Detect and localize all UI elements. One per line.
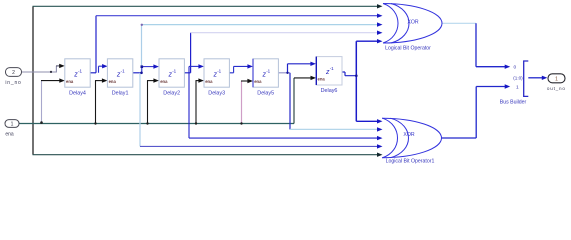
wire: Delay2 tap down + jog <box>188 66 190 138</box>
wire: top XOR output to Bus input 0 <box>442 22 477 24</box>
delay block Delay6 <box>316 57 342 94</box>
svg-text:Delay1: Delay1 <box>112 91 129 97</box>
wire: top rail 1 (in_no to top XOR input1) <box>33 5 379 7</box>
wire: bottom rail 1 <box>356 120 378 122</box>
wire: Delay1 to Delay2 input (jog) <box>142 67 155 73</box>
svg-text:Logical Bit Operator: Logical Bit Operator <box>385 45 431 51</box>
wire: Delay2 to Delay3 input <box>189 65 200 67</box>
svg-text:-1: -1 <box>78 68 82 73</box>
svg-text:Delay3: Delay3 <box>208 91 225 97</box>
delay block Delay4 <box>65 59 90 97</box>
svg-text:1: 1 <box>11 122 14 128</box>
corner blob rail3 <box>141 24 143 26</box>
wire: Delay1 output run <box>133 72 142 74</box>
svg-text:(1:0): (1:0) <box>513 76 523 81</box>
wire: Delay1 tap up to rail3 (light) <box>141 25 143 73</box>
wire: bottom rail 5 (in_no to bottom XOR input5) <box>33 154 379 156</box>
wire: ena branch to Delay5 (pink vertical) <box>241 81 243 124</box>
svg-text:1: 1 <box>516 84 519 90</box>
delay block Delay1 <box>107 59 132 97</box>
wire: Delay5 jog up to Delay6 input <box>288 64 312 73</box>
wire: in_no from port2 to Delay4 <box>22 71 57 73</box>
wire: bottom rail 3 <box>189 137 378 139</box>
junction dot ena/Delay1 <box>94 122 96 124</box>
wire: top rail 2 <box>96 15 378 17</box>
svg-text:XOR: XOR <box>407 19 418 25</box>
svg-text:Delay6: Delay6 <box>321 88 338 94</box>
wire: ena rail from port1 <box>19 123 294 125</box>
wire: Delay5 output run (light) <box>278 72 290 74</box>
svg-text:ena: ena <box>160 79 168 84</box>
svg-text:-1: -1 <box>121 68 125 73</box>
junction dot ena/Delay2 <box>146 122 148 124</box>
junction speck on in wire <box>50 71 52 73</box>
delay block Delay2 <box>159 59 184 97</box>
wire: ena branch to Delay1 <box>95 81 97 124</box>
wire: Delay2 tap up to rail4 <box>190 33 192 73</box>
wire: Delay6 output <box>342 72 356 76</box>
bus builder bracket <box>500 61 529 106</box>
wire: Bus output to out_no port <box>528 77 542 79</box>
svg-text:Logical Bit Operator1: Logical Bit Operator1 <box>386 159 435 165</box>
svg-text:2: 2 <box>12 70 15 76</box>
wire: Delay2 output run <box>184 72 190 74</box>
wire: top rail 4 (very light) <box>191 32 378 34</box>
wire: ena branch to Delay2 <box>147 81 149 124</box>
wire: top rail 5 <box>356 40 378 42</box>
junction dot ena/Delay4 <box>40 121 43 124</box>
delay block Delay5 <box>253 59 278 97</box>
junction square dot <box>141 65 144 68</box>
junction dot Delay6 out <box>355 74 358 77</box>
svg-text:Delay5: Delay5 <box>257 91 274 97</box>
wire: Delay3 output run + jog to Delay5 <box>229 66 248 72</box>
svg-text:-1: -1 <box>266 68 270 73</box>
wire: Delay4 output run <box>90 72 96 74</box>
wire: Delay1 tap down (light) <box>139 73 141 147</box>
wire: Delay5 tap down <box>289 73 291 130</box>
svg-text:ena: ena <box>5 132 14 138</box>
svg-text:out_no: out_no <box>547 86 566 91</box>
op: Logical Bit Operator1 (bottom XOR gate) <box>382 118 442 164</box>
svg-text:ena: ena <box>205 79 213 84</box>
svg-text:-1: -1 <box>217 68 221 73</box>
svg-text:Delay2: Delay2 <box>163 91 180 97</box>
svg-text:ena: ena <box>66 79 74 84</box>
svg-text:1: 1 <box>555 77 558 83</box>
wire: ena branch to Delay4 <box>41 81 43 124</box>
port 2 in_no <box>5 68 21 86</box>
wire: ena branch to Delay3 <box>195 81 197 124</box>
svg-text:0: 0 <box>514 65 517 71</box>
svg-text:ena: ena <box>318 77 326 82</box>
delay block Delay3 <box>204 59 229 97</box>
port 1 ena <box>5 120 19 138</box>
svg-text:Bus Builder: Bus Builder <box>500 100 527 106</box>
wire: bottom rail 2 (light) <box>290 128 378 130</box>
wire: top rail 3 <box>142 24 379 26</box>
wire: Delay4 to Delay1 input (jog) <box>99 66 104 73</box>
junction dot Delay5 out <box>286 72 288 74</box>
svg-text:XOR: XOR <box>403 132 414 138</box>
wire: bottom rail 4 <box>140 145 378 147</box>
junction dot ena/Delay5 <box>240 122 242 124</box>
svg-text:in_no: in_no <box>5 80 21 86</box>
junction dot ena/Delay3 <box>195 122 197 124</box>
wire: ena rail turn up to Delay6 <box>293 78 295 124</box>
wire: in_no net black vertical x=33 <box>32 6 34 154</box>
wire: Delay4 tap up to rail2 <box>95 16 97 73</box>
wire: bottom XOR output to Bus input 1 <box>441 87 506 139</box>
wire: Delay6 tap vertical <box>355 41 357 121</box>
port 1 out_no <box>547 74 566 91</box>
svg-text:-1: -1 <box>330 66 334 71</box>
svg-text:ena: ena <box>254 79 262 84</box>
svg-text:Delay4: Delay4 <box>69 91 86 97</box>
junction dot at Delay1 out <box>140 72 143 75</box>
svg-text:ena: ena <box>109 79 117 84</box>
svg-text:-1: -1 <box>172 68 176 73</box>
op: Logical Bit Operator (top XOR gate) <box>383 4 442 52</box>
